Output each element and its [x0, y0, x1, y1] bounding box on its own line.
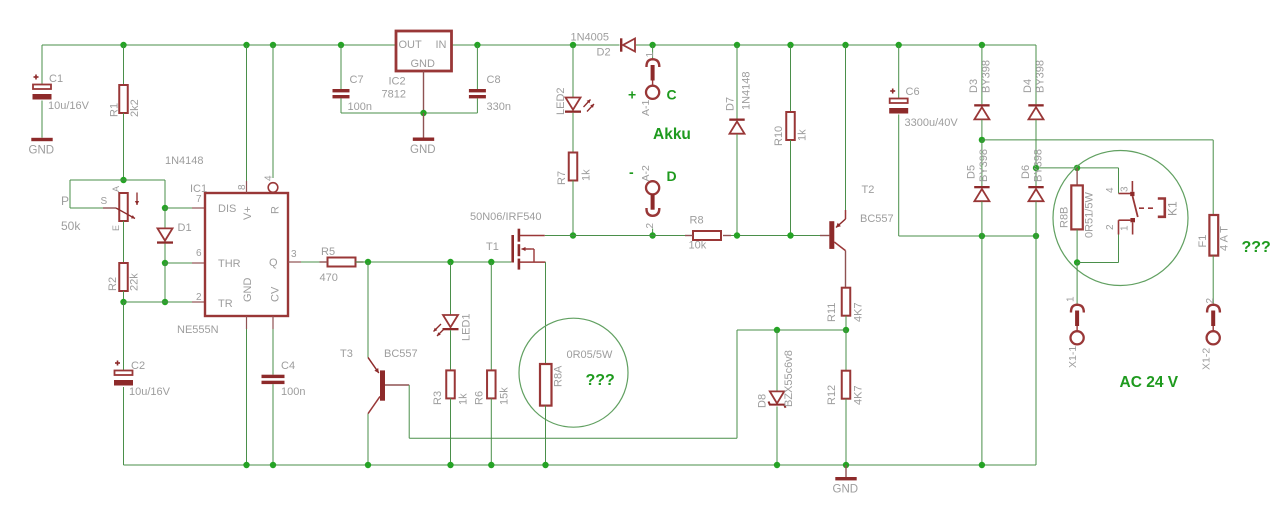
wire D7 to charge line — [736, 134, 738, 236]
wire R6 to bottom rail — [490, 398, 492, 465]
wire bottom ground rail — [124, 464, 1037, 466]
diode D2 1N4005 — [620, 38, 622, 51]
svg-text:S: S — [101, 196, 108, 207]
wire rail to D7 — [736, 45, 738, 119]
ground IC2 — [413, 138, 434, 141]
wire F1 to X1-2 — [1212, 256, 1214, 304]
wire C7-C8 ground bus — [341, 112, 477, 114]
svg-text:A-1: A-1 — [640, 100, 652, 117]
svg-text:4: 4 — [1105, 187, 1116, 193]
svg-text:D: D — [667, 168, 677, 184]
voltage regulator IC2 7812 box — [396, 31, 452, 71]
svg-text:GND: GND — [833, 484, 859, 496]
transistor T3 BC557 — [380, 370, 385, 400]
wire top supply rail — [42, 44, 396, 46]
node D8 bottom rail — [774, 462, 780, 468]
svg-text:BZX55c6v8: BZX55c6v8 — [783, 350, 795, 407]
node R12 bottom rail — [843, 462, 849, 468]
svg-text:???: ??? — [586, 372, 615, 389]
svg-text:1: 1 — [1065, 296, 1076, 302]
svg-text:TR: TR — [218, 298, 233, 310]
wire stub to ground — [845, 465, 847, 477]
ground C1 — [31, 138, 52, 141]
wire node to C2 — [123, 302, 125, 371]
resistor R8A 0R05/5W shunt — [540, 364, 552, 406]
wire C7 to bus — [340, 98, 342, 113]
LED LED1 — [443, 315, 458, 327]
wire D5 bottom to ground rail — [981, 236, 983, 465]
svg-text:10u/16V: 10u/16V — [129, 386, 171, 398]
wire rail to C6 — [898, 45, 900, 99]
svg-text:1: 1 — [1119, 225, 1130, 231]
svg-text:C1: C1 — [49, 73, 63, 85]
wire D6 to bottom line — [1035, 202, 1037, 237]
potentiometer P 50k — [103, 207, 116, 209]
node R5-T3 junction — [365, 259, 371, 265]
svg-text:2: 2 — [645, 223, 656, 229]
wire C1 to rail — [41, 45, 43, 84]
svg-text:+: + — [628, 87, 636, 103]
wire C1 to ground — [41, 101, 43, 138]
node R8A bottom rail — [542, 462, 548, 468]
wire DIS to IC1 pin 7 — [165, 207, 192, 209]
node R8B top junction — [1074, 165, 1080, 171]
svg-text:15k: 15k — [499, 387, 511, 405]
svg-text:2k2: 2k2 — [129, 99, 141, 117]
node D7 junction — [734, 232, 740, 238]
svg-text:4K7: 4K7 — [853, 385, 865, 405]
resistor R8B 0R51/5W — [1076, 168, 1078, 186]
svg-text:AC 24 V: AC 24 V — [1120, 374, 1179, 391]
wire feedback R11-R12 node to D8 — [737, 329, 846, 331]
svg-text:GND: GND — [242, 278, 254, 303]
wire R8A to bottom rail — [545, 406, 547, 465]
node D3-D5 midpoint — [979, 137, 985, 143]
node R10 junction — [787, 232, 793, 238]
wire IC1 pin 3 Q to R5 — [288, 261, 301, 263]
wire LED2 to R7 — [572, 113, 574, 153]
svg-text:2: 2 — [1105, 224, 1116, 230]
svg-text:50k: 50k — [61, 219, 81, 233]
wire IC1 pin 1 GND to bottom rail — [246, 316, 248, 329]
node pin1 bottom rail — [243, 462, 249, 468]
relay K1 contact — [1119, 193, 1131, 195]
capacitor C2 — [115, 362, 120, 364]
resistor R11 — [842, 288, 851, 316]
node R6 junction — [488, 259, 494, 265]
diode D3 BY398 — [974, 104, 989, 106]
resistor R7 — [569, 153, 578, 181]
svg-text:C8: C8 — [487, 74, 501, 86]
svg-text:6: 6 — [196, 248, 202, 259]
svg-text:3: 3 — [1119, 186, 1130, 192]
svg-text:BY398: BY398 — [1035, 60, 1047, 93]
node THR junction — [162, 260, 168, 266]
node C4 bottom rail — [270, 462, 276, 468]
svg-text:X1-2: X1-2 — [1200, 348, 1212, 370]
svg-text:BC557: BC557 — [384, 348, 418, 360]
svg-text:D7: D7 — [725, 97, 737, 111]
transistor T2 BC557 — [829, 221, 834, 249]
svg-text:100n: 100n — [348, 101, 372, 113]
fuse F1 4AT — [1209, 215, 1218, 256]
svg-text:R5: R5 — [321, 246, 335, 258]
wire R2 to node — [123, 291, 125, 302]
svg-text:Akku: Akku — [653, 126, 691, 143]
svg-text:CV: CV — [270, 286, 282, 302]
wire C6 down and right to bridge bottom — [898, 115, 900, 237]
resistor R3 — [446, 370, 455, 398]
svg-text:10k: 10k — [689, 240, 707, 252]
svg-text:R12: R12 — [826, 385, 838, 405]
wire relay to X1-1 — [1076, 263, 1078, 305]
pin connector A-2 — [646, 181, 659, 194]
wire T2 emitter to rail — [845, 45, 847, 210]
wire rail to C8 — [476, 45, 478, 89]
wire TR line — [124, 301, 193, 303]
wire rail to R10 — [790, 45, 792, 112]
svg-text:GND: GND — [411, 58, 436, 70]
svg-text:THR: THR — [218, 258, 241, 270]
svg-text:R: R — [270, 206, 282, 214]
resistor R6 — [487, 370, 496, 398]
svg-text:R8A: R8A — [553, 365, 565, 387]
svg-text:R7: R7 — [556, 171, 568, 185]
node bridge bottom rail — [979, 462, 985, 468]
svg-text:D8: D8 — [757, 394, 769, 408]
svg-text:0R05/5W: 0R05/5W — [567, 349, 613, 361]
wire junction to D1 column — [124, 179, 166, 181]
svg-text:F1: F1 — [1197, 235, 1209, 248]
wire IC2 GND pin down — [423, 71, 425, 113]
svg-text:LED1: LED1 — [461, 313, 473, 341]
svg-text:7812: 7812 — [382, 89, 406, 101]
node D4-D6 midpoint — [1033, 165, 1039, 171]
resistor R5 — [328, 258, 356, 267]
wire node to D1 — [164, 208, 166, 228]
wire D4 to node — [1035, 120, 1037, 168]
svg-text:R11: R11 — [826, 303, 838, 322]
wire D6 bottom to ground rail — [1035, 236, 1037, 465]
svg-text:C6: C6 — [906, 86, 920, 98]
wire THR to TR — [164, 263, 166, 302]
svg-text:0R51/5W: 0R51/5W — [1084, 192, 1096, 238]
wire C4 to bottom rail — [272, 384, 274, 465]
svg-text:K1: K1 — [1165, 201, 1179, 216]
svg-text:470: 470 — [320, 272, 338, 284]
resistor R2 — [119, 263, 128, 291]
wire R12 to bottom rail — [845, 399, 847, 465]
svg-text:R3: R3 — [432, 391, 444, 405]
svg-text:2: 2 — [1205, 298, 1216, 304]
wire rail to R1 — [123, 45, 125, 85]
svg-text:IC2: IC2 — [389, 76, 406, 88]
capacitor C8 — [469, 89, 486, 92]
wire node to T3 emitter — [367, 262, 369, 357]
wire R3 to bottom rail — [450, 398, 452, 465]
svg-text:BY398: BY398 — [978, 149, 990, 182]
wire D5 to bottom line — [981, 202, 983, 237]
wire R1 to node — [123, 113, 125, 180]
transistor T1 50N06/IRF540 — [511, 235, 514, 263]
svg-text:T2: T2 — [862, 184, 875, 196]
svg-text:???: ??? — [1242, 239, 1271, 256]
node circle annotation R8A — [519, 318, 628, 427]
wire R8B to node — [1076, 229, 1078, 262]
node R2-C2-TR junction — [120, 299, 126, 305]
node A-2 junction — [649, 232, 655, 238]
wire feedback down-left corner — [736, 330, 738, 438]
node R1-pot junction — [120, 177, 126, 183]
svg-text:22k: 22k — [129, 273, 141, 291]
node junction dots on top rail — [120, 42, 126, 48]
node DIS junction — [162, 205, 168, 211]
node T3 bottom rail — [365, 462, 371, 468]
wire C2 to bottom rail — [123, 387, 125, 465]
svg-text:T3: T3 — [340, 348, 353, 360]
svg-text:A-2: A-2 — [640, 165, 652, 182]
resistor R8 — [693, 231, 721, 240]
capacitor C7 — [333, 89, 350, 92]
node R7 charge-line junction — [570, 232, 576, 238]
wire R11 to node — [845, 316, 847, 330]
svg-text:4 A T: 4 A T — [1219, 226, 1231, 251]
ground main — [835, 477, 856, 480]
svg-text:A: A — [111, 186, 121, 192]
wire C8 to bus — [476, 98, 478, 113]
wire D1 column top — [164, 180, 166, 208]
svg-text:R6: R6 — [474, 391, 486, 405]
wire node to relay pin2 — [1077, 262, 1118, 264]
capacitor C6 — [890, 90, 895, 92]
svg-text:V+: V+ — [242, 206, 254, 220]
wire D8 to bottom rail — [776, 407, 778, 466]
svg-text:C: C — [667, 87, 677, 103]
svg-text:1N4148: 1N4148 — [165, 155, 204, 167]
svg-text:50N06/IRF540: 50N06/IRF540 — [470, 211, 542, 223]
svg-text:1: 1 — [645, 52, 656, 58]
wire IC1 pin 4 R to rail with bubble — [272, 45, 274, 178]
wire THR to IC1 pin 6 — [165, 262, 192, 264]
node R3 bottom rail — [447, 462, 453, 468]
svg-text:2: 2 — [196, 292, 202, 303]
svg-text:10u/16V: 10u/16V — [48, 100, 90, 112]
svg-text:1k: 1k — [581, 169, 593, 181]
diode D7 1N4148 — [729, 119, 744, 121]
resistor R10 — [786, 112, 795, 140]
svg-text:D1: D1 — [178, 222, 192, 234]
svg-text:R2: R2 — [107, 277, 119, 291]
svg-text:330n: 330n — [487, 101, 511, 113]
svg-text:NE555N: NE555N — [177, 324, 219, 336]
svg-text:E: E — [111, 225, 121, 231]
svg-text:D2: D2 — [597, 47, 611, 59]
svg-text:LED2: LED2 — [555, 87, 567, 115]
svg-text:P: P — [61, 194, 69, 208]
wire node to R6 — [490, 262, 492, 370]
svg-text:3: 3 — [291, 249, 297, 260]
capacitor C1 — [34, 76, 39, 78]
svg-text:4K7: 4K7 — [853, 302, 865, 322]
svg-text:3300u/40V: 3300u/40V — [905, 117, 959, 129]
wire D3 to node — [981, 120, 983, 140]
wire IC1 pin 5 CV to C4 — [272, 316, 274, 329]
LED LED2 — [566, 98, 581, 110]
wire rail to LED2 — [572, 45, 574, 98]
wire T1 source down to R8A — [545, 262, 547, 364]
wire node to LED1 — [450, 262, 452, 315]
wire A-2 to charge line — [652, 229, 654, 236]
svg-text:Q: Q — [269, 257, 278, 269]
diode D6 BY398 — [1035, 168, 1037, 186]
node D8 top junction — [774, 327, 780, 333]
relay K1 coil — [1158, 199, 1165, 217]
wire T3 base to feedback line — [408, 385, 410, 438]
resistor R1 — [119, 85, 128, 113]
svg-text:IN: IN — [436, 39, 447, 51]
svg-text:BC557: BC557 — [860, 213, 894, 225]
wire IC1 pin 8 V+ to rail — [246, 45, 248, 181]
svg-text:GND: GND — [410, 144, 436, 156]
svg-text:GND: GND — [29, 144, 55, 156]
svg-text:C4: C4 — [281, 360, 295, 372]
svg-text:7: 7 — [196, 194, 202, 205]
wire D3-D5 node to F1 — [982, 139, 1213, 141]
node LED1 junction — [447, 259, 453, 265]
node D5 bottom junction — [979, 233, 985, 239]
resistor R12 — [842, 371, 851, 399]
svg-text:BY398: BY398 — [981, 60, 993, 93]
wire node to R12 — [845, 330, 847, 371]
svg-text:D4: D4 — [1022, 79, 1034, 93]
svg-text:1N4005: 1N4005 — [571, 32, 610, 44]
svg-text:1k: 1k — [458, 393, 470, 405]
svg-text:T1: T1 — [486, 241, 499, 253]
wire R7 to charge line — [572, 181, 574, 236]
node R6 bottom rail — [488, 462, 494, 468]
diode D1 — [158, 228, 173, 240]
svg-text:D3: D3 — [968, 79, 980, 93]
svg-text:R1: R1 — [109, 103, 121, 117]
wire pot to R2 — [123, 221, 125, 263]
wire D4 column from rail corner — [1035, 45, 1037, 104]
diode D5 BY398 — [981, 140, 983, 186]
node D6 bottom junction — [1033, 233, 1039, 239]
wire T2 collector to R11 — [845, 251, 847, 288]
wire LED1 to R3 — [450, 330, 452, 370]
wire rail to C7 — [340, 45, 342, 89]
svg-text:R8: R8 — [690, 215, 704, 227]
svg-text:D6: D6 — [1020, 165, 1032, 179]
svg-text:OUT: OUT — [399, 39, 423, 51]
svg-text:BY398: BY398 — [1033, 149, 1045, 182]
svg-text:D5: D5 — [966, 165, 978, 179]
capacitor C4 — [262, 375, 285, 378]
diode D4 BY398 — [1028, 104, 1043, 106]
wire contact feed — [1118, 168, 1120, 194]
node R8B bottom junction — [1074, 259, 1080, 265]
svg-text:R10: R10 — [773, 126, 785, 146]
node circle annotation relay — [1053, 151, 1188, 286]
svg-text:-: - — [629, 164, 634, 180]
wire rail to D3 — [981, 45, 983, 104]
svg-text:C7: C7 — [350, 74, 364, 86]
wire D4-D6 node to relay contact — [1036, 167, 1119, 169]
node TR junction — [162, 299, 168, 305]
diode D8 zener BZX55c6v8 — [776, 330, 778, 391]
wire R5 to T1 gate — [356, 261, 512, 263]
svg-text:R8B: R8B — [1059, 207, 1071, 228]
wire junction left loop to pot wiper — [70, 179, 124, 181]
node IC2 gnd bus — [420, 110, 426, 116]
wire bus to ground symbol — [423, 113, 425, 138]
wire T3 collector to bottom rail — [367, 414, 369, 465]
wire rail to A-1 — [652, 45, 654, 58]
op-amp timer U IC1 NE555N box — [205, 193, 288, 316]
svg-text:1k: 1k — [797, 129, 809, 141]
svg-text:X1-1: X1-1 — [1067, 346, 1079, 368]
svg-text:1N4148: 1N4148 — [741, 71, 753, 110]
svg-text:DIS: DIS — [218, 203, 236, 215]
wire T1 drain to T2 base line — [545, 235, 693, 237]
node R11-R12 junction — [843, 327, 849, 333]
svg-text:C2: C2 — [131, 360, 145, 372]
svg-text:100n: 100n — [281, 386, 305, 398]
wire D1 to THR node — [164, 244, 166, 264]
wire R10 to charge line — [790, 140, 792, 236]
